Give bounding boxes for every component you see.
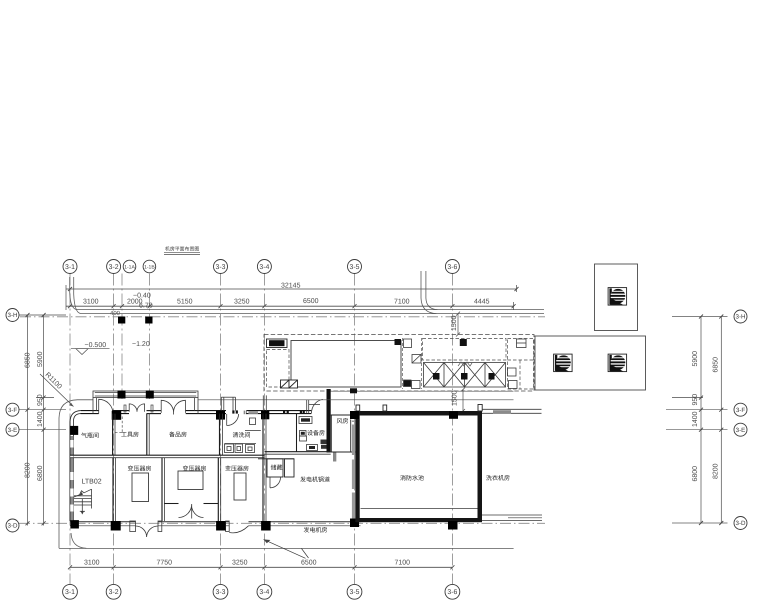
svg-text:气瓶间: 气瓶间 [81, 432, 99, 440]
svg-text:4445: 4445 [474, 299, 490, 306]
svg-text:清洗间: 清洗间 [233, 431, 251, 439]
door 备品房 double [161, 400, 185, 414]
column 3-5 pool top [350, 411, 359, 419]
svg-text:3-6: 3-6 [447, 264, 457, 271]
column 3-4 north [261, 411, 269, 420]
transformer room wall T1|T2 [161, 458, 163, 521]
diag box pair bottom-left [281, 380, 298, 388]
T2 double door [179, 504, 204, 519]
fire pool walls [355, 411, 482, 522]
svg-text:5900: 5900 [692, 351, 699, 367]
svg-text:3250: 3250 [234, 299, 250, 306]
hatch squiggle [458, 362, 472, 366]
svg-text:LTB02: LTB02 [82, 479, 102, 486]
svg-text:6.70: 6.70 [139, 303, 153, 310]
svg-text:R1100: R1100 [44, 371, 63, 390]
grid line 3-6 [451, 274, 453, 585]
svg-text:工具房: 工具房 [121, 431, 139, 439]
dimension 1500 road to slab [456, 312, 460, 337]
strip boxes between units [403, 338, 422, 389]
corner block generator [395, 339, 402, 345]
svg-text:7100: 7100 [394, 299, 410, 306]
transformer T3 pad [234, 473, 246, 500]
cooling tower symbol 3 [608, 354, 627, 372]
svg-text:−0.500: −0.500 [85, 342, 107, 349]
grid line 3-E horizontal [19, 429, 66, 431]
day tank dashed box [423, 339, 507, 361]
svg-text:设备房: 设备房 [307, 429, 325, 437]
svg-text:950: 950 [692, 394, 699, 406]
R1100 leader [40, 374, 74, 407]
curb top corner curve R1100 [59, 400, 77, 418]
right axis circles [734, 310, 747, 530]
grid line 3-H horizontal road centerline [20, 316, 545, 318]
right tick slashes [699, 315, 723, 526]
door 工具房 double [129, 404, 144, 412]
svg-text:5900: 5900 [37, 351, 44, 367]
entrance porch slab [93, 391, 198, 414]
chain ticks [68, 304, 516, 308]
road west corner curves [70, 292, 77, 310]
generator foundation rectangle [291, 341, 401, 388]
svg-text:−0.40: −0.40 [133, 293, 151, 300]
cooling tower pad upper [595, 264, 638, 331]
设备房 south wall [265, 451, 331, 453]
column 3-4 south [261, 521, 271, 531]
title 平面图 [164, 246, 200, 255]
right dimension chain verticals [700, 317, 702, 524]
road south edge [81, 313, 544, 315]
svg-text:32145: 32145 [281, 283, 301, 290]
svg-text:8200: 8200 [25, 462, 32, 478]
svg-text:3-H: 3-H [736, 314, 746, 321]
dimension 1500 slab to pool [461, 388, 465, 414]
svg-text:变压器房: 变压器房 [183, 465, 207, 473]
svg-text:1-1B: 1-1B [144, 265, 155, 271]
laundry room north walls [482, 408, 542, 410]
exhaust dashed bay right [508, 339, 534, 390]
north wall of rooms row (double) with openings [81, 411, 312, 414]
top chain 3100 left tick vertical [65, 285, 67, 310]
svg-text:6800: 6800 [37, 465, 44, 481]
porch column right [146, 391, 154, 399]
room divider wall horizontal [70, 454, 265, 456]
column 3-2 north [112, 411, 122, 420]
wall stub east of 设备房 [333, 452, 335, 462]
grid line 3-3 [220, 274, 222, 585]
svg-text:1-1A: 1-1A [124, 265, 135, 271]
east wall 清洗间 / 3-4 wall [262, 414, 264, 521]
svg-text:机房平面布置图: 机房平面布置图 [165, 246, 199, 253]
svg-text:3-3: 3-3 [216, 264, 226, 271]
T2 vestibule walls [164, 503, 178, 505]
equipment slab dashed outline [264, 335, 534, 392]
laundry room south walls [482, 514, 542, 516]
grid line 3-1 [69, 274, 71, 585]
window tick marks on north wall [232, 410, 305, 413]
svg-text:5150: 5150 [177, 299, 193, 306]
road north edge [77, 309, 544, 311]
transformer T1 pad [132, 473, 149, 502]
top chain dimension line [66, 305, 514, 307]
apron line bottom [59, 547, 514, 549]
canopy lines east section [331, 390, 514, 392]
svg-text:7750: 7750 [157, 560, 173, 567]
cooling tower symbol 2 [554, 354, 573, 372]
svg-text:3-E: 3-E [736, 427, 746, 434]
interior wall 备品房|清洗间 [219, 414, 221, 455]
left tick 3-H [19, 314, 66, 316]
svg-text:3-F: 3-F [8, 407, 18, 414]
设备房 west wall [296, 414, 298, 452]
grid line 3-D horizontal [19, 522, 545, 524]
svg-text:洗衣机房: 洗衣机房 [486, 474, 510, 482]
储藏 door [269, 478, 271, 488]
porch column left [118, 391, 126, 399]
svg-text:3-E: 3-E [8, 427, 18, 434]
apron corner curve bottom-left [71, 533, 86, 548]
svg-text:3100: 3100 [83, 299, 99, 306]
left tick slashes [26, 313, 46, 525]
column 3-6 pool bottom [448, 521, 458, 530]
svg-text:3-6: 3-6 [447, 589, 457, 596]
building south wall [70, 522, 361, 526]
grid line 1A [121, 274, 123, 400]
svg-text:3-4: 3-4 [259, 264, 269, 271]
svg-text:变压器房: 变压器房 [225, 465, 249, 473]
svg-text:备品房: 备品房 [169, 431, 187, 439]
battery box top-left [267, 339, 288, 348]
block on day tank [460, 339, 467, 346]
laundry north louver [493, 410, 511, 413]
svg-text:6800: 6800 [692, 466, 699, 482]
column west 3-E [70, 426, 78, 435]
svg-text:1500: 1500 [451, 315, 458, 331]
road west curb vertical [69, 277, 71, 292]
svg-text:3100: 3100 [84, 560, 100, 567]
grid line 3-4 [263, 274, 265, 585]
column 3-2 south [111, 521, 121, 531]
column 3-5 south [350, 519, 359, 528]
south door T1 arcs [136, 526, 159, 537]
road north-east corner curves [421, 298, 437, 314]
column 3-1 south [70, 520, 79, 528]
louver band west of pool wall [352, 421, 355, 519]
svg-text:发电机房: 发电机房 [304, 526, 328, 534]
dashed cabinet left [267, 350, 290, 388]
block at pool NW [350, 388, 357, 393]
风房 room [331, 415, 356, 452]
transformer room wall 3-2 [112, 458, 114, 521]
canopy stub at 3-3 清洗间 door [221, 397, 235, 410]
left tick 950 [36, 397, 54, 399]
svg-text:950: 950 [37, 394, 44, 406]
储藏 room [258, 459, 294, 477]
svg-text:−1.20: −1.20 [132, 341, 150, 348]
door 设备房 exterior vestibule [307, 399, 323, 413]
svg-text:6850: 6850 [25, 352, 32, 368]
interior wall 工具房|备品房 [146, 414, 148, 455]
svg-text:发电机锅道: 发电机锅道 [300, 476, 330, 484]
svg-text:3-3: 3-3 [216, 589, 226, 596]
louver on wall west of 3-4 [248, 411, 258, 414]
svg-text:3-5: 3-5 [350, 264, 360, 271]
canopy stub at 3-4 [263, 395, 266, 410]
stair LTB02 [74, 489, 92, 515]
svg-text:3-H: 3-H [8, 312, 18, 319]
svg-text:消防水池: 消防水池 [400, 474, 424, 482]
canopy edge west [77, 399, 93, 401]
清洗间 fixtures [225, 418, 261, 453]
transformer room wall T2|T3 [217, 458, 219, 521]
dashed duct mark in 工具房 [115, 417, 122, 433]
cooling tower symbol 1 [608, 288, 627, 306]
radiator bank with X bracing [424, 363, 506, 388]
svg-text:变压器房: 变压器房 [128, 465, 152, 473]
column 3-3 south [216, 521, 226, 531]
pool inner ledge line [361, 508, 478, 510]
pool wall posts [356, 405, 482, 412]
left axis circles [6, 309, 19, 533]
left dimension chain verticals [27, 315, 29, 526]
svg-text:8200: 8200 [713, 463, 720, 479]
svg-text:储藏: 储藏 [271, 464, 283, 472]
svg-text:3-2: 3-2 [109, 589, 119, 596]
top dimension line 32145 [66, 288, 517, 290]
svg-text:7100: 7100 [395, 560, 411, 567]
svg-text:3-1: 3-1 [65, 589, 75, 596]
grid line 1B [149, 274, 151, 400]
svg-text:3250: 3250 [232, 560, 248, 567]
column 3-6 pool top [449, 411, 458, 419]
svg-text:6850: 6850 [713, 357, 720, 373]
svg-text:3-2: 3-2 [109, 264, 119, 271]
svg-text:6500: 6500 [303, 298, 319, 305]
building west wall [70, 421, 74, 522]
south door T3 arc [229, 526, 248, 533]
svg-text:1500: 1500 [452, 390, 459, 406]
svg-text:3-4: 3-4 [259, 589, 269, 596]
bottom axis circles [63, 584, 460, 599]
cooling tower pad lower [535, 336, 646, 390]
thick exhaust wall [327, 389, 331, 453]
radiator anchor blocks [433, 373, 440, 380]
west wall corner curves [70, 411, 81, 422]
road north-east branch verticals [420, 271, 422, 298]
grid line 3-F horizontal [19, 409, 66, 411]
column 3-3 north [216, 411, 225, 420]
south door T1 leaves [130, 521, 136, 532]
bottom chain dimension line [70, 566, 452, 568]
svg-text:3-D: 3-D [736, 520, 747, 527]
south door T3 leaf [226, 521, 230, 532]
right tick 950 [672, 397, 703, 399]
设备房 equipment [299, 417, 327, 451]
svg-text:3-F: 3-F [736, 407, 746, 414]
svg-text:风房: 风房 [337, 417, 349, 425]
axis circle 3-1 top [63, 260, 459, 274]
svg-text:3-1: 3-1 [65, 264, 75, 271]
svg-text:3-5: 3-5 [350, 589, 360, 596]
grid line 3-5 [354, 274, 356, 585]
grid line 3-2 [113, 274, 115, 585]
transformer T2 pad [178, 471, 203, 490]
door 清洗间 [226, 414, 228, 426]
door 气瓶间 single leaf [99, 399, 113, 413]
south site road curb [58, 418, 60, 548]
svg-text:3-D: 3-D [8, 523, 19, 530]
roadside column pair on axis [118, 317, 125, 324]
svg-text:6500: 6500 [301, 560, 317, 567]
svg-text:1400: 1400 [37, 411, 44, 427]
interior wall 气瓶间|工具房 [112, 414, 114, 455]
svg-text:1400: 1400 [692, 411, 699, 427]
